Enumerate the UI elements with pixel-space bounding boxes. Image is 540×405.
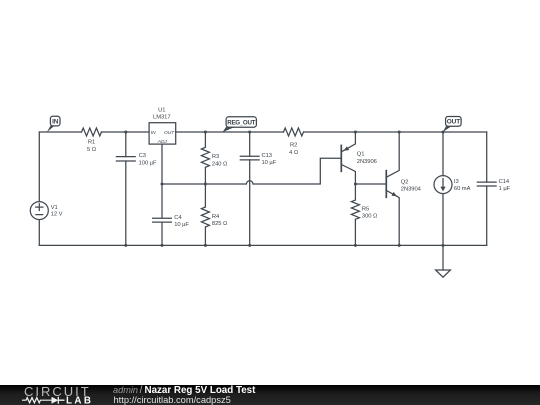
wire Q1 collector to Q2 base: [355, 183, 386, 185]
current source I3: [434, 132, 471, 245]
svg-text:10 µF: 10 µF: [174, 222, 189, 228]
svg-text:admin: admin: [113, 385, 138, 395]
node C13 bottom: [248, 244, 251, 247]
svg-text:REG_OUT: REG_OUT: [227, 119, 255, 126]
svg-text:100 µF: 100 µF: [139, 160, 157, 166]
resistor R1: [82, 128, 102, 153]
wire U1 OUT to right corner: [176, 131, 284, 133]
svg-text:Q2: Q2: [401, 179, 409, 185]
svg-text:LAB: LAB: [66, 396, 93, 405]
svg-text:LM317: LM317: [153, 115, 170, 121]
svg-text:V1: V1: [51, 205, 58, 211]
wire R1 to U1: [102, 131, 150, 133]
svg-text:R2: R2: [290, 143, 297, 149]
svg-text:IN: IN: [52, 118, 59, 125]
footer title text: [113, 385, 256, 396]
wire ADJ net horizontal with hop over C13: [162, 158, 341, 184]
op-amp U1 LM317: [149, 107, 176, 145]
node R3 top: [204, 131, 207, 134]
svg-text:OUT: OUT: [164, 130, 175, 136]
svg-text:Q1: Q1: [357, 152, 365, 158]
node R5 bottom: [354, 244, 357, 247]
resistor R3: [201, 132, 228, 184]
svg-text:R3: R3: [212, 154, 219, 160]
ground: [436, 270, 451, 277]
svg-text:5 Ω: 5 Ω: [87, 147, 97, 153]
node C3 bottom: [124, 244, 127, 247]
capacitor C13: [240, 132, 276, 245]
transistor Q2 2N3904: [386, 132, 421, 245]
wire bottom rail: [39, 244, 486, 246]
node I3 bottom: [442, 244, 445, 247]
node Q2 collector top: [398, 131, 401, 134]
svg-text:2N3906: 2N3906: [357, 159, 377, 165]
wire R2 to top-right corner: [304, 131, 487, 133]
wire to ground: [442, 245, 444, 270]
svg-text:R4: R4: [212, 214, 220, 220]
footer url text: [114, 395, 231, 405]
wire left rail (V1 branch): [38, 132, 40, 245]
svg-text:R1: R1: [88, 140, 95, 146]
svg-text:OUT: OUT: [447, 119, 460, 126]
capacitor C4: [153, 215, 190, 228]
svg-text:R5: R5: [362, 206, 369, 212]
node C13 top: [248, 131, 251, 134]
node R4 bottom: [204, 244, 207, 247]
wire U1 ADJ down: [161, 144, 163, 245]
flag OUT: [443, 117, 461, 133]
svg-text:C13: C13: [262, 153, 272, 159]
svg-text:C3: C3: [139, 153, 146, 159]
svg-text:C4: C4: [174, 215, 182, 221]
footer bar: [0, 385, 540, 405]
svg-text:825 Ω: 825 Ω: [212, 221, 228, 227]
svg-text:U1: U1: [158, 107, 165, 113]
resistor R2: [284, 128, 304, 156]
voltage source V1: [30, 202, 62, 220]
flag IN: [47, 116, 60, 132]
node C4 bottom: [161, 244, 164, 247]
node I3 top: [442, 131, 445, 134]
node ADJ junction: [161, 183, 164, 186]
svg-text:4 Ω: 4 Ω: [289, 150, 299, 156]
node C3 top: [124, 131, 127, 134]
wire top rail left segment: [39, 131, 81, 133]
node Q1 collector junction: [354, 183, 357, 186]
svg-text:300 Ω: 300 Ω: [362, 214, 378, 220]
svg-text:60 mA: 60 mA: [454, 186, 471, 192]
svg-text:IN: IN: [151, 130, 156, 136]
capacitor C3: [116, 132, 157, 245]
resistor R5: [351, 184, 378, 245]
flag REG_OUT: [222, 117, 256, 132]
svg-text:C14: C14: [499, 179, 510, 185]
node R3/R4 junction: [204, 183, 207, 186]
resistor R4: [201, 184, 228, 245]
svg-text:12 V: 12 V: [51, 211, 63, 217]
svg-text:10 µF: 10 µF: [262, 160, 277, 166]
svg-text:1 µF: 1 µF: [499, 186, 511, 192]
CircuitLab logo: [22, 384, 93, 405]
node Q2 emitter bottom: [398, 244, 401, 247]
svg-text:240 Ω: 240 Ω: [212, 161, 228, 167]
transistor Q1 2N3906: [341, 132, 377, 184]
node Q1 emitter top: [354, 131, 357, 134]
capacitor C14: [477, 132, 510, 245]
svg-text:http://circuitlab.com/cadpsz5: http://circuitlab.com/cadpsz5: [114, 395, 231, 405]
svg-text:2N3904: 2N3904: [401, 187, 422, 193]
svg-text:I3: I3: [454, 179, 459, 185]
